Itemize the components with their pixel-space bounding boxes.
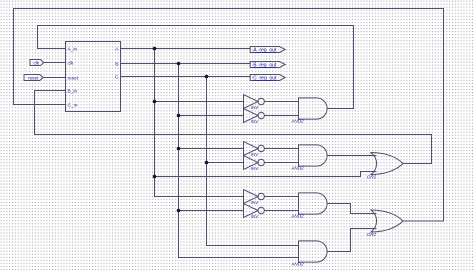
wire B vertical bus down to AND2 4 lower input (179, 64, 299, 258)
wire C vertical bus down to AND2 4 upper input (207, 77, 299, 246)
wire AND2 2 out to OR2 1 upper input (327, 155, 376, 157)
pin reset stub (55, 77, 66, 79)
wire net A_in feedback (AND2 1 out to A_in) (38, 26, 354, 109)
svg-text:OR2: OR2 (367, 175, 377, 180)
junction C to INV4 (205, 161, 209, 165)
wire INV6 out to AND2 3 (264, 210, 298, 212)
inverter INV5 (244, 190, 265, 204)
wire C to INV4 (207, 162, 244, 164)
svg-text:INV: INV (251, 152, 259, 157)
inverter INV2 (244, 109, 265, 123)
wire net C_in feedback (OR2 2 out to C_in) (14, 9, 444, 222)
wire INV5 out to AND2 3 (264, 196, 298, 198)
junction net C bus tap (205, 75, 209, 79)
wire B to INV2 (179, 115, 244, 117)
svg-text:INV: INV (251, 200, 259, 205)
junction B to INV3 (177, 147, 181, 151)
wire reset (43, 77, 65, 79)
junction B to INV2 (177, 114, 181, 118)
input port reset (24, 75, 43, 81)
svg-text:INV: INV (251, 105, 259, 110)
svg-text:C_reg_out: C_reg_out (253, 76, 277, 82)
AND gate AND2 #4 (299, 241, 328, 262)
svg-text:A_in: A_in (68, 46, 78, 52)
wire INV2 out to AND2 1 (264, 115, 298, 117)
svg-text:INV: INV (251, 214, 259, 219)
wire net A (block out A to A_reg_out) (121, 48, 251, 50)
svg-text:AND2: AND2 (290, 119, 304, 124)
output port A_reg_out (250, 47, 285, 54)
wire A to OR2 1 lower input (155, 172, 377, 177)
pin A_in stub (55, 48, 66, 50)
svg-text:AND2: AND2 (290, 262, 304, 267)
wire B to INV6 (179, 210, 244, 212)
junction A to OR2 1 lower (153, 175, 157, 179)
svg-text:B_reg_out: B_reg_out (253, 63, 277, 69)
svg-text:C_in: C_in (68, 102, 78, 108)
junction net A bus tap (153, 47, 157, 51)
svg-text:clk: clk (68, 60, 74, 66)
svg-text:OR2: OR2 (367, 232, 377, 237)
junction A to INV1 (153, 100, 157, 104)
svg-text:INV: INV (251, 119, 259, 124)
svg-text:C: C (115, 74, 119, 80)
inverter INV4 (244, 156, 265, 170)
svg-text:A_reg_out: A_reg_out (253, 48, 277, 54)
svg-text:B_in: B_in (68, 88, 78, 94)
pin B_in stub (55, 90, 66, 92)
AND gate AND2 #1 (299, 98, 328, 119)
junction net B bus tap (177, 62, 181, 66)
wire INV3 out to AND2 2 (264, 148, 298, 150)
wire A to INV1 (155, 101, 244, 103)
inverter INV3 (244, 142, 265, 156)
pin C_in stub (55, 104, 66, 106)
svg-text:AND2: AND2 (290, 166, 304, 171)
AND gate AND2 #3 (299, 193, 328, 214)
svg-text:AND2: AND2 (290, 214, 304, 219)
output port C_reg_out (250, 75, 285, 82)
svg-text:clk: clk (33, 60, 39, 65)
inverter INV1 (244, 95, 265, 109)
svg-text:INV: INV (251, 166, 259, 171)
wire net C (block out C to C_reg_out) (121, 76, 251, 78)
wire net B_in feedback (OR2 1 out to B_in) (35, 91, 432, 164)
module U1 register block (55, 42, 121, 112)
wire AND2 4 out to OR2 2 lower input (327, 229, 376, 252)
wire net B (block out B to B_reg_out) (121, 63, 251, 65)
svg-text:reset: reset (68, 75, 79, 81)
wire clk (44, 62, 66, 64)
wire INV1 out to AND2 1 (264, 101, 298, 103)
svg-text:B: B (115, 61, 118, 67)
input port clk (30, 60, 44, 66)
AND gate AND2 #2 (299, 145, 328, 166)
inverter INV6 (244, 204, 265, 218)
output port B_reg_out (250, 62, 285, 69)
pin clk stub (55, 62, 66, 64)
OR gate OR2 #1 (371, 153, 403, 175)
OR gate OR2 #2 (371, 210, 403, 232)
wire INV4 out to AND2 2 (264, 162, 298, 164)
wire B to INV3 (179, 148, 244, 150)
svg-text:reset: reset (28, 75, 39, 80)
junction B to INV6 (177, 209, 181, 213)
wire AND2 3 out to OR2 2 upper input (327, 204, 376, 214)
wire A vertical bus down to INV5 (155, 49, 244, 197)
